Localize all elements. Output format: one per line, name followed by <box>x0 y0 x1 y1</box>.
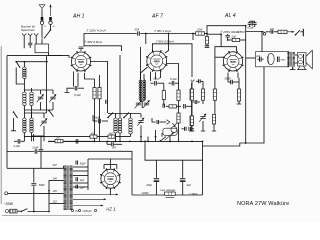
antenna 2 plug <box>49 17 52 24</box>
resistor R2 vertical <box>99 75 101 88</box>
wire R7 down <box>191 106 193 116</box>
coupling coil L10 <box>143 79 145 101</box>
output network box <box>256 52 289 67</box>
AZ1 shield box left <box>87 159 89 190</box>
wire antenna1 down <box>41 25 43 39</box>
wire meter branch <box>131 151 133 195</box>
wire jack stub <box>301 31 303 33</box>
wire heater a <box>73 194 118 196</box>
wire heater AH1 <box>119 55 121 113</box>
capacitor C19 in box <box>260 57 262 62</box>
trimmer C5 <box>140 114 142 118</box>
wire anode supply AH1 <box>84 34 137 45</box>
wire AF7 left pin <box>141 67 148 79</box>
wire AZ1 anode bracket <box>103 165 105 170</box>
svg-text:ℱ 220V 4,2mA: ℱ 220V 4,2mA <box>86 29 106 33</box>
wire socket3 down <box>35 35 37 44</box>
svg-text:4V: 4V <box>75 209 78 213</box>
wire AL4 anode rail down <box>245 26 247 144</box>
svg-text:222: 222 <box>269 27 275 31</box>
wire AL4 pins down <box>237 73 239 79</box>
wire AF7 right pin down <box>167 64 179 84</box>
svg-text:2µF: 2µF <box>255 55 261 58</box>
svg-text:16µF: 16µF <box>146 184 152 187</box>
svg-text:ℱ255V: ℱ255V <box>236 30 246 34</box>
wire band feed vertical <box>46 56 48 113</box>
svg-text:AF 7: AF 7 <box>151 14 164 20</box>
wire AL4 grid <box>192 34 194 41</box>
contact Y <box>172 123 176 127</box>
resistor R5 vertical <box>178 83 180 90</box>
svg-text:ℱ 98V 1,2mA: ℱ 98V 1,2mA <box>154 29 171 33</box>
capacitor C27 50uF <box>76 161 78 165</box>
trimmer C35 <box>135 100 142 108</box>
bus HT horizontal <box>7 151 34 153</box>
fuse <box>10 209 18 213</box>
svg-text:1µF: 1µF <box>80 179 85 182</box>
capacitor C10 <box>157 120 159 124</box>
capacitor C-ant <box>28 43 32 45</box>
pickup jack bar <box>302 29 304 37</box>
node anode rail join <box>245 142 247 144</box>
node tuner top <box>24 61 26 63</box>
AL4 grid bracket <box>215 47 237 58</box>
wire AZ1 bottom out <box>109 189 111 196</box>
svg-text:50µF: 50µF <box>80 162 86 166</box>
scan artifact bottom <box>2 215 92 217</box>
wire after fuse <box>17 210 21 212</box>
tube AL4 <box>223 51 244 72</box>
speaker cone <box>306 50 312 68</box>
wire box feed <box>246 57 256 59</box>
wire socket2 down <box>29 35 31 42</box>
resistor R9 <box>196 32 205 35</box>
svg-text:2µF: 2µF <box>231 35 237 39</box>
mains switch <box>21 209 28 213</box>
svg-text:0,1µF: 0,1µF <box>248 27 255 30</box>
wire screen rail AF7 <box>152 44 192 77</box>
capacitor C-a <box>106 100 108 104</box>
wire switch leg <box>16 68 24 85</box>
speaker stand <box>297 66 307 70</box>
capacitor C28 1uF <box>76 177 78 181</box>
bus ground horizontal <box>48 140 203 142</box>
coil L1 <box>23 62 25 67</box>
resistor R17 pickup <box>274 31 279 33</box>
resistor R481 <box>90 135 97 138</box>
grid cap AH1 top <box>79 47 84 49</box>
svg-text:ℱ 98V 0,53mA: ℱ 98V 0,53mA <box>156 40 175 44</box>
wire up to top rail <box>207 26 246 34</box>
resistor R1 vertical <box>94 79 96 88</box>
svg-text:0,1µF: 0,1µF <box>74 93 81 97</box>
wire AH1 pins down a <box>73 72 75 87</box>
svg-text:ℱ 98V 0,6mA: ℱ 98V 0,6mA <box>84 40 102 44</box>
svg-text:287: 287 <box>55 137 61 140</box>
svg-text:6800: 6800 <box>281 60 287 62</box>
svg-text:AZ 1: AZ 1 <box>105 207 116 212</box>
wire grid feed horizontal <box>207 33 221 35</box>
transformer T1 primary <box>64 166 67 210</box>
wire primary top <box>63 166 65 168</box>
svg-text:4µF: 4µF <box>187 184 192 187</box>
wire meter run <box>132 194 203 196</box>
resistor R12 cathode <box>238 78 240 89</box>
tube AZ1 <box>100 168 121 189</box>
capacitor C34 pair <box>185 127 187 131</box>
coupling coil L9 <box>140 47 142 101</box>
wire cap C10 left <box>152 118 156 122</box>
resistor R8 vertical <box>190 116 193 126</box>
svg-text:40µF: 40µF <box>94 116 100 120</box>
capacitor C23 left <box>18 139 20 144</box>
wire socket1 down <box>23 35 25 48</box>
wire R9 out <box>204 33 207 35</box>
capacitor C26 5000 <box>31 184 36 186</box>
potentiometer loop <box>163 128 177 135</box>
capacitor C22 <box>112 142 114 146</box>
resistor R14 <box>202 81 204 89</box>
svg-text:4µF: 4µF <box>191 79 196 83</box>
wire sec mid <box>73 175 88 177</box>
scan edge artifact left <box>0 46 2 204</box>
wire stub 155 <box>155 130 157 141</box>
node supply split <box>192 33 194 35</box>
capacitor C11 to ground <box>206 44 208 45</box>
capacitor C padder <box>99 119 101 123</box>
coil L8 <box>130 113 132 118</box>
svg-text:0,1µF: 0,1µF <box>154 77 161 81</box>
coil L5 osc secondary <box>31 113 33 118</box>
resistor R13 <box>191 81 193 89</box>
tube AH1 <box>71 51 92 72</box>
coil L7 IF b <box>119 113 121 118</box>
wire after C534 <box>140 33 193 35</box>
wire tuner top <box>16 61 48 63</box>
wire arrow to switch <box>287 31 294 33</box>
wire right bus leg <box>202 141 204 195</box>
wire grid feed vertical <box>220 34 222 47</box>
resistor R4 horizontal <box>166 105 169 107</box>
trimmer C16 <box>199 114 206 122</box>
capacitor C31 4uF <box>182 160 184 178</box>
detector diode circle <box>171 127 177 133</box>
resistor R3 <box>163 83 165 90</box>
transformer T1 core <box>68 166 69 211</box>
capacitor C9 <box>184 104 186 109</box>
wire stub 162 <box>161 133 163 137</box>
field coil <box>267 53 274 64</box>
svg-text:ℱ 360V: ℱ 360V <box>189 192 198 196</box>
wire grid top horizontal <box>7 55 62 57</box>
capacitor C32 <box>39 150 43 152</box>
resistor R15 <box>213 89 216 100</box>
band switch S1 <box>15 61 20 68</box>
wire filter drop <box>40 137 42 150</box>
svg-text:110: 110 <box>53 200 58 204</box>
resistor R11 <box>228 39 233 41</box>
capacitor C30 16uF <box>155 160 157 178</box>
output transformer secondary <box>293 53 295 67</box>
capacitor C8 <box>163 104 165 108</box>
wire mains upper <box>8 192 49 194</box>
trimmer C3 tuning gang b <box>43 113 45 118</box>
switch S5 <box>123 113 129 119</box>
svg-text:AL 4: AL 4 <box>224 13 236 19</box>
wire tone to box <box>261 32 263 52</box>
wire to contact <box>159 121 166 123</box>
antenna 1 symbol <box>39 5 45 9</box>
switch pickup <box>295 30 300 35</box>
meter box <box>165 192 176 195</box>
wire box bottom exit <box>263 67 265 144</box>
capacitor C17 pair <box>248 23 252 25</box>
capacitor C29 1uF <box>76 185 78 189</box>
antenna 1 lead wire <box>41 9 43 17</box>
node returns <box>140 136 142 138</box>
trimmer C1 <box>40 90 42 94</box>
ground tuner <box>13 118 15 128</box>
wire cap feeder <box>145 141 203 160</box>
ground output transformer <box>292 67 294 70</box>
wire R2 to bus <box>99 120 101 141</box>
svg-text:0,1µF: 0,1µF <box>170 77 177 81</box>
bus dots <box>94 141 96 143</box>
svg-text:0,1µF: 0,1µF <box>14 145 21 148</box>
bus left horizontal 168 <box>7 167 64 169</box>
svg-text:5000: 5000 <box>39 183 45 187</box>
wire tuner return <box>24 136 130 138</box>
transformer T1 secondary <box>70 166 73 210</box>
wire stub 148 <box>147 137 149 142</box>
ground AH1 cathode <box>67 88 71 90</box>
wire osc top <box>24 112 46 114</box>
resistor R18 bus <box>55 140 63 143</box>
wire tone line <box>246 31 264 33</box>
wire into R9 <box>193 33 196 35</box>
switch S2 wave change <box>13 111 18 118</box>
mains terminal upper <box>5 192 8 195</box>
wire below C-ant <box>29 45 31 48</box>
capacitor C-k AH1 <box>75 86 77 91</box>
resistor R7 vertical <box>191 83 193 89</box>
wire L2 bottom <box>23 106 25 119</box>
coil L2 antenna primary <box>23 92 26 106</box>
capacitor C21 in box <box>278 57 280 63</box>
mains terminal lower <box>6 210 9 213</box>
potentiometer arrow <box>165 132 175 140</box>
wire AF7 pins down <box>150 72 152 82</box>
wire HT sec a <box>73 166 88 168</box>
wire AF7 anode feed <box>165 34 169 54</box>
svg-text:NORA 27W Walküre: NORA 27W Walküre <box>237 201 289 207</box>
svg-text:ℱ290V: ℱ290V <box>141 192 149 195</box>
wire AL4 left column <box>214 57 216 89</box>
wire C17 down <box>249 24 251 27</box>
wire osc link <box>108 113 141 115</box>
terminal tone tap <box>263 32 266 35</box>
tap selector vertical <box>48 180 50 212</box>
svg-text:Sperrkreis: Sperrkreis <box>21 28 35 32</box>
wire antenna2 down <box>50 25 52 31</box>
wire AH1 pins down b <box>77 73 79 87</box>
wire branch to AF7 anode <box>145 34 147 45</box>
resistor R482 <box>108 135 115 138</box>
capacitor C15 series <box>195 100 197 104</box>
wire left-edge vertical <box>6 56 8 169</box>
wire screen AH1 <box>84 44 122 51</box>
wire column R13 gnd <box>191 102 193 116</box>
wire tuner mid horizontal <box>24 89 53 91</box>
ground left bus <box>33 137 35 142</box>
antenna 2 arrow <box>49 5 51 17</box>
wire gang link <box>32 135 45 137</box>
coil L6 IF a <box>115 113 117 118</box>
svg-text:AH 1: AH 1 <box>72 14 85 20</box>
coil L4 osc primary <box>23 118 26 133</box>
trimmer C36 <box>143 100 150 108</box>
wire box down to tuner <box>49 53 63 56</box>
wire heater c <box>73 205 103 207</box>
wire speaker return <box>203 143 265 146</box>
antenna coil box <box>35 44 49 53</box>
capacitor C12 <box>225 35 230 37</box>
capacitor C534 <box>138 31 140 35</box>
wire to pickup cap <box>266 31 271 33</box>
output transformer core <box>291 52 292 67</box>
wire line filter vertical <box>33 168 35 182</box>
wire pot bottom <box>169 135 171 141</box>
antenna selector switch <box>44 29 51 38</box>
wire to bus bottom <box>28 211 50 213</box>
wire AH1 right pin down <box>91 62 108 114</box>
output transformer primary <box>287 53 289 67</box>
wire heater b <box>73 198 106 200</box>
resistor R10 vertical <box>206 34 208 37</box>
svg-text:240: 240 <box>52 176 58 180</box>
resistor R6 vertical <box>177 113 180 123</box>
svg-text:597: 597 <box>112 147 117 150</box>
wire AZ1 cathode top <box>109 159 111 169</box>
capacitor C33 on bus <box>35 149 37 154</box>
node 534 out <box>145 33 147 35</box>
switch contact bottom <box>160 137 167 142</box>
wire AH1 pin to R column <box>85 73 95 79</box>
AZ1 shield box top <box>88 158 132 160</box>
antenna 1 plug <box>40 17 43 24</box>
contact fork <box>166 120 170 125</box>
wire HT sec b <box>73 170 88 172</box>
svg-text:547: 547 <box>53 163 58 167</box>
heater terminals <box>71 209 73 211</box>
capacitor C24 <box>76 139 78 144</box>
switch S3 <box>48 110 53 117</box>
node grid <box>227 39 229 41</box>
svg-text:~55W: ~55W <box>4 202 14 206</box>
coil L3 antenna secondary <box>31 88 33 92</box>
wire grid AH1 from tuner <box>62 56 69 58</box>
speaker magnet <box>298 53 307 67</box>
node top rail right <box>245 25 247 27</box>
trimmer C2 tuning gang a <box>52 90 54 94</box>
svg-text:125: 125 <box>53 189 58 193</box>
switch S4 <box>107 113 113 119</box>
tube AF7 <box>146 50 167 71</box>
svg-text:534: 534 <box>135 28 140 32</box>
svg-text:1,0M: 1,0M <box>197 28 204 32</box>
resistor R16 <box>212 115 215 125</box>
wire speaker connects <box>295 54 298 56</box>
svg-text:≈4V0,6A: ≈4V0,6A <box>82 210 92 213</box>
sperrkreis sockets <box>22 33 38 35</box>
wire ant box to grid line <box>41 39 43 45</box>
svg-text:0,5µF: 0,5µF <box>33 148 40 150</box>
